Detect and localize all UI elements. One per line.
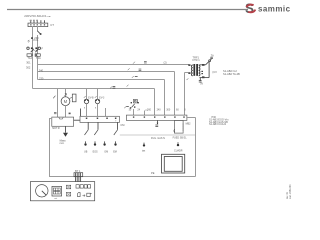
junction marker top-left of PCB box xyxy=(124,107,126,109)
wire L (left) from block down xyxy=(32,27,34,54)
middle terminal box xyxy=(80,116,119,122)
sammic logo xyxy=(245,1,291,16)
svg-text:mot.: mot. xyxy=(60,142,65,145)
primary winding xyxy=(191,65,192,76)
PE loop: PCB right edge to bottom wire xyxy=(187,117,196,119)
primary top terminal xyxy=(188,64,190,66)
control panel box xyxy=(30,182,94,201)
stubs above block xyxy=(30,21,32,23)
svg-text:S1-AB3 CUA-N: S1-AB3 CUA-N xyxy=(209,123,226,126)
double square box xyxy=(162,154,185,173)
header rule xyxy=(7,9,248,11)
PCB terminal numbers xyxy=(129,108,187,111)
wire N continues xyxy=(37,35,39,54)
line D bus xyxy=(33,88,155,90)
wire N (right) stub from block xyxy=(37,27,39,31)
svg-text:240: 240 xyxy=(39,68,44,72)
terminal dots row xyxy=(84,143,179,146)
svg-text:260: 260 xyxy=(147,108,152,111)
envelope icon top xyxy=(66,185,70,189)
svg-text:S1-AB2 TA-2B: S1-AB2 TA-2B xyxy=(223,72,240,76)
link motor box to cam box xyxy=(74,119,80,121)
line A to transformer primary top xyxy=(38,64,190,66)
display grid xyxy=(52,186,62,196)
svg-text:240: 240 xyxy=(157,108,162,111)
secondary right vertical xyxy=(208,62,210,78)
svg-text:M: M xyxy=(64,99,68,104)
contact circles pair (door switch) xyxy=(27,47,29,49)
primary bottom terminal + wire down xyxy=(188,72,190,74)
secondary bottom terminal xyxy=(202,76,205,78)
PCB long box xyxy=(126,115,186,120)
svg-text:302: 302 xyxy=(26,66,31,70)
svg-text:MOT.R: MOT.R xyxy=(52,127,60,130)
svg-text:PE: PE xyxy=(151,171,155,175)
motor tap from bus xyxy=(65,89,67,97)
legend text block xyxy=(209,116,228,126)
right wire continues xyxy=(37,56,39,79)
button row xyxy=(76,185,79,188)
svg-text:300: 300 xyxy=(166,108,171,111)
svg-text:230V/50-60Hz/1~ₘ: 230V/50-60Hz/1~ₘ xyxy=(24,14,50,18)
capacitor box right of motor xyxy=(70,97,73,98)
svg-text:set: set xyxy=(54,197,57,200)
fuse F1 xyxy=(27,54,32,57)
MB relay box below right end xyxy=(174,120,183,133)
svg-text:S: S xyxy=(245,1,254,16)
svg-text:UB: UB xyxy=(84,151,88,154)
envelope icon bottom xyxy=(66,192,70,196)
svg-text:FUG. GAS N: FUG. GAS N xyxy=(151,137,165,140)
motor wire down xyxy=(65,106,67,118)
svg-text:T1A: T1A xyxy=(27,56,32,60)
svg-text:sammic: sammic xyxy=(258,4,291,13)
secondary top terminal and klixon contact xyxy=(202,64,205,66)
svg-text:CUADR: CUADR xyxy=(174,149,183,152)
svg-text:CT: CT xyxy=(50,23,54,27)
wire into middle box xyxy=(105,108,107,116)
left wire continues to bus xyxy=(32,56,34,88)
svg-text:5V: 5V xyxy=(200,82,203,85)
small icons bottom xyxy=(78,193,81,197)
svg-text:8.01: 8.01 xyxy=(33,38,39,42)
svg-text:GM: GM xyxy=(104,151,108,154)
motor gearbox box xyxy=(52,117,74,126)
line B xyxy=(38,71,175,73)
switch blades with dashed link xyxy=(31,49,34,52)
knob xyxy=(36,185,48,197)
junction dot on left wire xyxy=(31,37,33,39)
main switch blade S1 xyxy=(37,31,40,34)
wire stub into cam box xyxy=(80,109,82,117)
motor M1 xyxy=(61,97,70,106)
svg-text:FUED SB EL: FUED SB EL xyxy=(173,137,188,140)
svg-text:230: 230 xyxy=(39,76,44,80)
svg-text:(CV: (CV xyxy=(212,70,217,74)
svg-text:FTR.1: FTR.1 xyxy=(193,58,201,62)
svg-text:EGS: EGS xyxy=(93,151,98,154)
fuse F2 xyxy=(35,54,40,57)
svg-text:CM: CM xyxy=(120,123,124,127)
line C xyxy=(38,79,165,81)
micro switch cluster xyxy=(133,99,137,103)
svg-text:TA: TA xyxy=(211,54,214,57)
arrow below PCB box xyxy=(157,120,159,124)
terminal block CT xyxy=(28,23,48,27)
EV2 coil xyxy=(97,89,99,100)
svg-text:EV-3: EV-3 xyxy=(99,97,105,99)
svg-text:EM: EM xyxy=(113,151,117,154)
motor frame wire from bus xyxy=(57,89,59,118)
secondary winding xyxy=(199,65,200,76)
cam contact blades xyxy=(85,130,89,135)
svg-text:EV-B: EV-B xyxy=(88,97,94,99)
stub 2 xyxy=(144,111,146,116)
svg-text:MB2: MB2 xyxy=(186,122,192,125)
right edge vertical text xyxy=(289,184,292,199)
svg-text:(2): (2) xyxy=(164,61,167,65)
svg-text:cod. 2051234: cod. 2051234 xyxy=(289,184,292,199)
EV1 coil xyxy=(86,89,88,100)
terminal stems xyxy=(85,141,87,143)
svg-text:T2A: T2A xyxy=(36,56,41,60)
blades below middle box xyxy=(87,122,89,129)
transformer core xyxy=(193,64,198,76)
wire rail to PE xyxy=(120,134,196,136)
secondary stub with marker xyxy=(199,78,201,81)
earth symbol below motor box xyxy=(65,126,67,132)
svg-text:301: 301 xyxy=(26,60,31,64)
left PE vertical from motor box xyxy=(49,118,52,120)
svg-text:rev. 01: rev. 01 xyxy=(286,191,289,199)
